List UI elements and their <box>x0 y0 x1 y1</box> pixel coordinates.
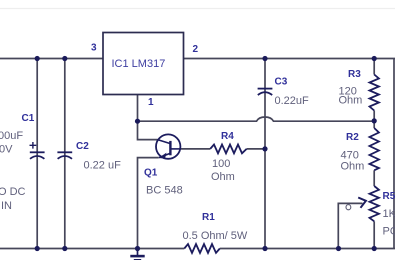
wire C1 vertical <box>36 59 38 249</box>
wire bottom rail left of R1 <box>0 248 184 250</box>
svg-text:C2: C2 <box>76 141 89 152</box>
svg-text:POT: POT <box>383 226 395 238</box>
ground <box>130 249 144 260</box>
svg-text:R5: R5 <box>383 191 395 202</box>
node top R3 <box>372 56 377 61</box>
resistor R4 <box>210 145 246 154</box>
node bottom ground <box>135 246 140 251</box>
node bottom wiper <box>336 246 341 251</box>
node bottom C1 <box>35 246 40 251</box>
svg-text:BC 548: BC 548 <box>146 185 183 197</box>
wire pot wiper <box>338 203 362 248</box>
wire LM317 pin1 to collector <box>138 95 158 140</box>
wire emitter to ground rail <box>138 158 159 249</box>
node bottom C2 <box>62 246 67 251</box>
node top C3 <box>262 56 267 61</box>
potentiometer R5 <box>358 186 379 221</box>
svg-text:C3: C3 <box>275 77 288 88</box>
svg-text:R2: R2 <box>346 132 359 143</box>
svg-text:0.5 Ohm/ 5W: 0.5 Ohm/ 5W <box>183 230 248 242</box>
wire R4 right lead <box>247 148 265 150</box>
transistor Q1 <box>156 134 181 158</box>
node bottom R5 <box>372 246 377 251</box>
svg-text:R4: R4 <box>221 131 234 142</box>
wire R5 bottom lead <box>373 221 375 248</box>
svg-text:IC1 LM317: IC1 LM317 <box>112 58 166 70</box>
svg-text:Ohm: Ohm <box>339 95 363 107</box>
wire ADJ horizontal with hop over C3 node <box>138 117 375 121</box>
node ADJ pin1 <box>135 119 140 124</box>
wire C2 vertical <box>64 59 66 249</box>
page border line <box>0 8 395 10</box>
svg-text:R1: R1 <box>202 212 215 223</box>
svg-text:IN: IN <box>1 200 12 212</box>
wire top rail right <box>184 58 395 60</box>
wire base to R4 <box>181 148 210 150</box>
node R4 right <box>262 146 267 151</box>
svg-text:C1: C1 <box>22 113 35 124</box>
svg-text:0.22uF: 0.22uF <box>275 95 310 107</box>
svg-text:2: 2 <box>193 44 199 55</box>
node bottom C3 <box>262 246 267 251</box>
svg-text:1K: 1K <box>383 208 395 220</box>
node ADJ R2 top <box>372 118 377 123</box>
svg-text:0V: 0V <box>0 144 13 156</box>
op-amp U1 : IC1 LM317 regulator box <box>103 33 184 95</box>
node top C2 <box>62 56 67 61</box>
resistor R2 <box>370 128 379 170</box>
resistor R3 <box>370 75 379 111</box>
svg-text:R3: R3 <box>348 69 361 80</box>
wire right edge vertical <box>393 59 395 249</box>
svg-text:3: 3 <box>91 43 97 54</box>
wire C3 / R4-node vertical <box>264 59 266 249</box>
potentiometer R5 wiper mark <box>346 205 351 210</box>
wire top rail left <box>0 58 103 60</box>
wire bottom rail right of R1 <box>220 248 395 250</box>
svg-text:0.22 uF: 0.22 uF <box>84 160 122 172</box>
wire R2 to R5 lead <box>373 170 375 186</box>
svg-text:1: 1 <box>148 97 154 108</box>
svg-text:00uF: 00uF <box>0 130 23 142</box>
svg-text:100: 100 <box>212 158 230 170</box>
capacitor C3 <box>258 89 273 95</box>
capacitor C1 <box>30 142 45 159</box>
svg-text:Q1: Q1 <box>144 168 158 179</box>
node top C1 <box>35 56 40 61</box>
svg-text:Ohm: Ohm <box>211 171 235 183</box>
wire R3 top lead <box>373 59 375 75</box>
svg-text:Ohm: Ohm <box>341 161 365 173</box>
capacitor C2 <box>57 152 72 159</box>
wire R3-R2 junction leads <box>373 111 375 129</box>
svg-text:O DC: O DC <box>0 186 26 198</box>
resistor R1 <box>184 244 220 253</box>
